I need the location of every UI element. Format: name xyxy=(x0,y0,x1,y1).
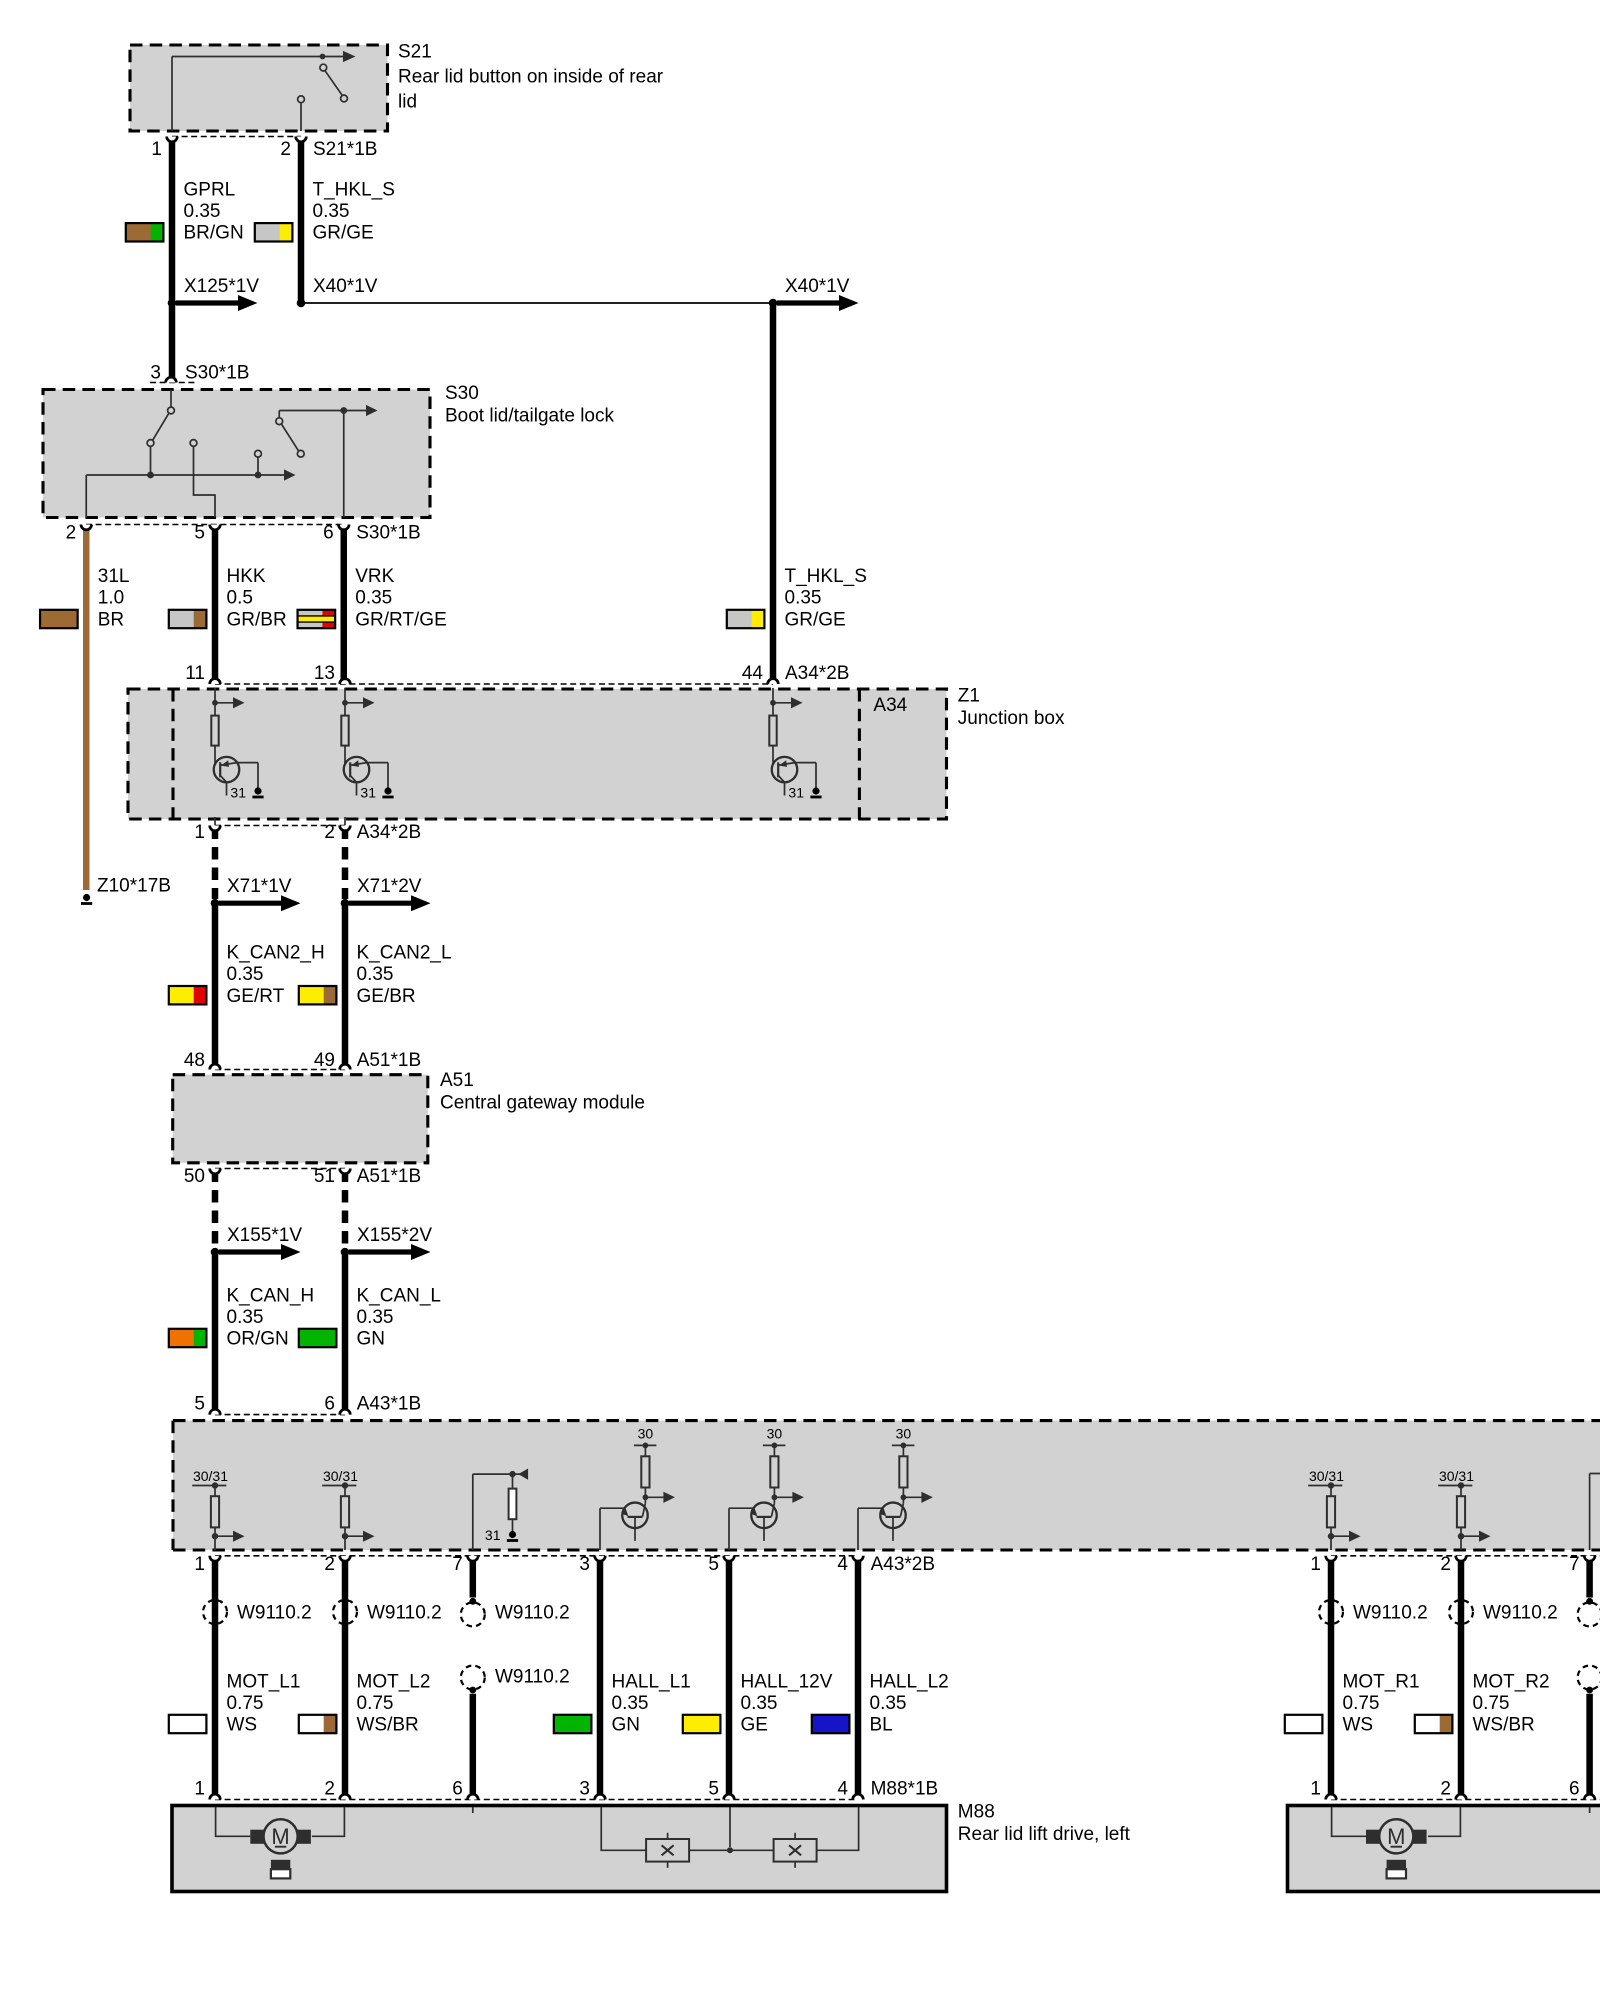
svg-text:Junction box: Junction box xyxy=(958,708,1065,729)
svg-text:M: M xyxy=(1387,1824,1405,1849)
svg-text:GR/GE: GR/GE xyxy=(785,609,846,630)
svg-text:X40*1V: X40*1V xyxy=(785,276,850,297)
svg-text:6: 6 xyxy=(452,1779,463,1800)
svg-text:GE/RT: GE/RT xyxy=(227,986,285,1007)
svg-text:Rear lid lift drive, left: Rear lid lift drive, left xyxy=(958,1824,1131,1845)
svg-text:A51: A51 xyxy=(440,1070,474,1091)
svg-text:2: 2 xyxy=(324,1554,335,1575)
svg-text:1: 1 xyxy=(1310,1554,1321,1575)
svg-text:WS: WS xyxy=(1343,1715,1374,1736)
svg-text:31: 31 xyxy=(230,785,246,801)
svg-text:0.35: 0.35 xyxy=(227,1307,264,1328)
svg-text:51: 51 xyxy=(314,1166,335,1187)
svg-text:0.35: 0.35 xyxy=(227,964,264,985)
svg-text:W9110.2: W9110.2 xyxy=(1353,1603,1428,1624)
svg-text:3: 3 xyxy=(579,1554,590,1575)
svg-text:5: 5 xyxy=(194,523,205,544)
svg-text:2: 2 xyxy=(324,1779,335,1800)
svg-text:Z10*17B: Z10*17B xyxy=(97,876,171,897)
svg-text:Rear lid button on inside of r: Rear lid button on inside of rear xyxy=(398,67,664,88)
svg-text:4: 4 xyxy=(837,1554,848,1575)
svg-text:X71*1V: X71*1V xyxy=(227,876,292,897)
svg-text:K_CAN_L: K_CAN_L xyxy=(357,1285,442,1306)
svg-text:0.35: 0.35 xyxy=(741,1693,778,1714)
svg-text:HALL_L2: HALL_L2 xyxy=(870,1671,949,1692)
svg-text:W9110.2: W9110.2 xyxy=(1483,1603,1558,1624)
svg-text:0.35: 0.35 xyxy=(785,588,822,609)
svg-text:Central gateway module: Central gateway module xyxy=(440,1093,645,1114)
svg-text:W9110.2: W9110.2 xyxy=(495,1667,570,1688)
svg-text:30/31: 30/31 xyxy=(1439,1468,1474,1484)
svg-text:5: 5 xyxy=(708,1779,719,1800)
svg-text:0.5: 0.5 xyxy=(227,588,253,609)
svg-text:1: 1 xyxy=(194,822,205,843)
svg-text:WS: WS xyxy=(227,1715,258,1736)
svg-text:30: 30 xyxy=(638,1426,654,1442)
svg-text:3: 3 xyxy=(150,363,161,384)
svg-text:2: 2 xyxy=(66,523,77,544)
svg-text:BL: BL xyxy=(870,1715,893,1736)
svg-text:M: M xyxy=(271,1824,289,1849)
svg-text:2: 2 xyxy=(1440,1554,1451,1575)
svg-text:0.35: 0.35 xyxy=(313,201,350,222)
svg-text:GE: GE xyxy=(741,1715,768,1736)
svg-text:30/31: 30/31 xyxy=(1309,1468,1344,1484)
svg-text:0.75: 0.75 xyxy=(1473,1693,1510,1714)
svg-text:A43*2B: A43*2B xyxy=(871,1554,935,1575)
svg-text:T_HKL_S: T_HKL_S xyxy=(313,179,395,200)
svg-text:A34*2B: A34*2B xyxy=(785,663,849,684)
svg-text:5: 5 xyxy=(194,1393,205,1414)
svg-text:S21: S21 xyxy=(398,42,432,63)
svg-text:3: 3 xyxy=(579,1779,590,1800)
svg-text:A43*1B: A43*1B xyxy=(357,1393,421,1414)
svg-text:0.75: 0.75 xyxy=(227,1693,264,1714)
svg-text:1: 1 xyxy=(194,1779,205,1800)
svg-text:M88*1B: M88*1B xyxy=(871,1779,939,1800)
svg-text:Z1: Z1 xyxy=(958,686,980,707)
svg-text:31: 31 xyxy=(485,1527,501,1543)
svg-text:K_CAN_H: K_CAN_H xyxy=(227,1285,315,1306)
svg-text:31L: 31L xyxy=(98,566,130,587)
svg-text:W9110.2: W9110.2 xyxy=(237,1603,312,1624)
svg-text:MOT_R2: MOT_R2 xyxy=(1473,1671,1550,1692)
svg-text:HKK: HKK xyxy=(227,566,266,587)
svg-text:X155*1V: X155*1V xyxy=(227,1225,302,1246)
svg-text:OR/GN: OR/GN xyxy=(227,1329,289,1350)
svg-text:6: 6 xyxy=(323,523,334,544)
svg-text:0.35: 0.35 xyxy=(357,1307,394,1328)
svg-text:GPRL: GPRL xyxy=(184,179,236,200)
svg-text:K_CAN2_H: K_CAN2_H xyxy=(227,943,325,964)
svg-text:A51*1B: A51*1B xyxy=(357,1166,421,1187)
svg-text:BR/GN: BR/GN xyxy=(184,223,244,244)
svg-text:7: 7 xyxy=(452,1554,463,1575)
svg-text:30/31: 30/31 xyxy=(323,1468,358,1484)
svg-text:2: 2 xyxy=(1440,1779,1451,1800)
svg-text:0.35: 0.35 xyxy=(870,1693,907,1714)
svg-text:1.0: 1.0 xyxy=(98,588,124,609)
svg-text:11: 11 xyxy=(185,663,205,684)
svg-text:X40*1V: X40*1V xyxy=(313,276,378,297)
svg-text:0.35: 0.35 xyxy=(612,1693,649,1714)
svg-text:HALL_L1: HALL_L1 xyxy=(612,1671,691,1692)
svg-text:0.75: 0.75 xyxy=(1343,1693,1380,1714)
svg-text:30: 30 xyxy=(767,1426,783,1442)
svg-text:GE/BR: GE/BR xyxy=(357,986,416,1007)
svg-text:A34*2B: A34*2B xyxy=(357,822,421,843)
svg-text:S30*1B: S30*1B xyxy=(185,363,249,384)
svg-text:GR/BR: GR/BR xyxy=(227,609,287,630)
svg-text:2: 2 xyxy=(280,139,291,160)
svg-text:S21*1B: S21*1B xyxy=(313,139,377,160)
svg-text:31: 31 xyxy=(360,785,376,801)
svg-text:GN: GN xyxy=(612,1715,641,1736)
svg-text:0.35: 0.35 xyxy=(357,964,394,985)
svg-text:30/31: 30/31 xyxy=(193,1468,228,1484)
svg-text:S30: S30 xyxy=(445,383,479,404)
svg-text:WS/BR: WS/BR xyxy=(357,1715,419,1736)
svg-text:BR: BR xyxy=(98,609,124,630)
svg-text:X155*2V: X155*2V xyxy=(357,1225,432,1246)
svg-text:M88: M88 xyxy=(958,1802,995,1823)
svg-text:W9110.2: W9110.2 xyxy=(367,1603,442,1624)
svg-text:13: 13 xyxy=(314,663,335,684)
svg-text:Boot lid/tailgate lock: Boot lid/tailgate lock xyxy=(445,406,614,427)
svg-text:T_HKL_S: T_HKL_S xyxy=(785,566,867,587)
svg-text:31: 31 xyxy=(788,785,804,801)
svg-text:MOT_L2: MOT_L2 xyxy=(357,1671,431,1692)
svg-text:6: 6 xyxy=(324,1393,335,1414)
svg-text:0.35: 0.35 xyxy=(184,201,221,222)
svg-text:1: 1 xyxy=(151,139,162,160)
svg-text:44: 44 xyxy=(742,663,764,684)
svg-text:X125*1V: X125*1V xyxy=(184,276,259,297)
svg-text:MOT_R1: MOT_R1 xyxy=(1343,1671,1420,1692)
svg-text:HALL_12V: HALL_12V xyxy=(741,1671,833,1692)
svg-text:W9110.2: W9110.2 xyxy=(495,1603,570,1624)
svg-text:0.75: 0.75 xyxy=(357,1693,394,1714)
svg-text:GR/GE: GR/GE xyxy=(313,223,374,244)
svg-text:GN: GN xyxy=(357,1329,386,1350)
svg-text:5: 5 xyxy=(708,1554,719,1575)
svg-text:MOT_L1: MOT_L1 xyxy=(227,1671,301,1692)
svg-text:48: 48 xyxy=(184,1050,205,1071)
svg-text:7: 7 xyxy=(1569,1554,1580,1575)
svg-text:0.35: 0.35 xyxy=(355,588,392,609)
svg-text:A34: A34 xyxy=(873,695,907,716)
svg-text:WS/BR: WS/BR xyxy=(1473,1715,1535,1736)
svg-text:1: 1 xyxy=(1310,1779,1321,1800)
svg-text:6: 6 xyxy=(1569,1779,1580,1800)
svg-text:GR/RT/GE: GR/RT/GE xyxy=(355,609,447,630)
svg-text:4: 4 xyxy=(837,1779,848,1800)
svg-text:A51*1B: A51*1B xyxy=(357,1050,421,1071)
svg-text:S30*1B: S30*1B xyxy=(356,523,420,544)
svg-text:2: 2 xyxy=(324,822,335,843)
svg-text:lid: lid xyxy=(398,92,417,113)
svg-text:30: 30 xyxy=(896,1426,912,1442)
svg-text:VRK: VRK xyxy=(355,566,394,587)
svg-text:X71*2V: X71*2V xyxy=(357,876,422,897)
svg-text:49: 49 xyxy=(314,1050,335,1071)
svg-text:50: 50 xyxy=(184,1166,205,1187)
svg-text:1: 1 xyxy=(194,1554,205,1575)
svg-text:K_CAN2_L: K_CAN2_L xyxy=(357,943,452,964)
